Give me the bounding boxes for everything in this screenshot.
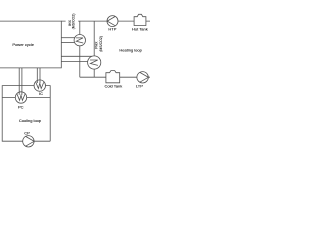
- wire HX1 CO2 pipe upper: [61, 37, 76, 39]
- heat exchanger HX2 PHX (MS/CO2): [88, 56, 101, 69]
- svg-text:PC: PC: [18, 104, 24, 109]
- node labels: [12, 26, 147, 135]
- svg-text:CP: CP: [24, 131, 30, 136]
- svg-text:IC: IC: [39, 91, 43, 96]
- svg-text:Cold Tank: Cold Tank: [105, 83, 123, 88]
- power-cycle box: [0, 21, 61, 68]
- svg-text:(MS/CO2): (MS/CO2): [72, 14, 76, 30]
- wire heating line: [61, 20, 150, 22]
- cooler PC: [15, 92, 26, 103]
- wire PC top pipes: [19, 68, 22, 95]
- wire cooling right rail: [45, 86, 50, 142]
- wire IC top pipes: [37, 68, 40, 84]
- label IHX (MS/CO2) for HX1: [66, 14, 79, 31]
- pump LTP: [137, 72, 148, 83]
- cooler IC: [34, 80, 45, 91]
- tank Cold Tank: [106, 71, 120, 83]
- svg-text:Cooling loop: Cooling loop: [19, 118, 42, 123]
- wire HX2 CO2 pipe upper: [61, 55, 92, 57]
- label PHX (MS/CO2) for HX2: [95, 36, 103, 52]
- wire HX1 CO2 pipe lower: [61, 41, 76, 43]
- pump CP: [23, 136, 34, 147]
- svg-text:HTP: HTP: [108, 26, 116, 31]
- wire HX2 top riser: [93, 21, 95, 57]
- wire HX2 bottom riser: [93, 68, 95, 77]
- wire HX2 CO2 pipe lower: [61, 61, 92, 63]
- pump HTP: [107, 16, 118, 27]
- tank Hot Tank: [134, 14, 146, 25]
- wire cold line: [80, 76, 150, 78]
- wire HX1 bottom riser: [79, 45, 81, 78]
- wire HX1 top riser: [79, 21, 81, 36]
- svg-text:(MS/CO2): (MS/CO2): [99, 36, 103, 52]
- wire cooling left rail: [2, 86, 50, 142]
- heat exchanger HX1 IHX (MS/CO2): [74, 35, 85, 46]
- svg-text:Power cycle: Power cycle: [12, 42, 34, 47]
- svg-text:Heating loop: Heating loop: [119, 48, 142, 53]
- svg-text:LTP: LTP: [136, 83, 143, 88]
- svg-text:Hot Tank: Hot Tank: [132, 26, 148, 31]
- wire PC water pipes: [2, 97, 50, 99]
